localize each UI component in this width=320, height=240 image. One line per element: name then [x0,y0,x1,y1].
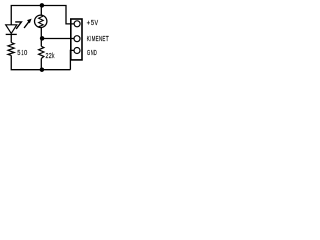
wire LED cathode to resistor R1 [10,34,12,42]
label KIMENET [87,34,110,43]
LED D1 triangle [6,25,17,34]
connector pin 3 [74,48,80,54]
wire R1 to bottom rail [11,55,70,69]
node junction dot bottom rail [40,67,45,72]
svg-text:T: T [106,34,110,43]
connector pin 2 [74,36,80,42]
connector J1 body [71,19,82,60]
svg-text:D: D [94,48,97,57]
label +5V [87,18,99,27]
svg-text:5: 5 [17,48,20,57]
wire top rail +5V [11,6,74,25]
svg-text:V: V [95,18,99,27]
LDR R2 circle [35,15,47,27]
node junction dot top rail [40,3,45,8]
resistor R1 510 zigzag [8,43,14,56]
LED light arrow 2 head [27,19,32,24]
svg-text:k: k [52,51,54,60]
wire R3 to bottom rail [40,59,42,70]
LED D1 cathode bar [6,33,17,35]
LDR R2 zigzag [39,15,44,28]
LED light arrow 2 shaft [24,22,29,28]
resistor R3 22k zigzag [39,46,44,58]
connector pin 1 [74,21,80,27]
label 510 [17,48,27,57]
svg-text:0: 0 [24,48,27,57]
wire pin 3 GND to bottom rail [70,50,74,69]
wire top dot to LDR [40,6,42,15]
label 22k [46,51,55,60]
node junction dot KIMENET [40,36,45,41]
wire KIMENET to pin 2 [42,38,74,40]
svg-text:5: 5 [91,18,94,27]
wire LDR to node KIMENET [40,28,42,47]
LED light arrow 1 [15,22,21,29]
label GND [87,48,97,57]
